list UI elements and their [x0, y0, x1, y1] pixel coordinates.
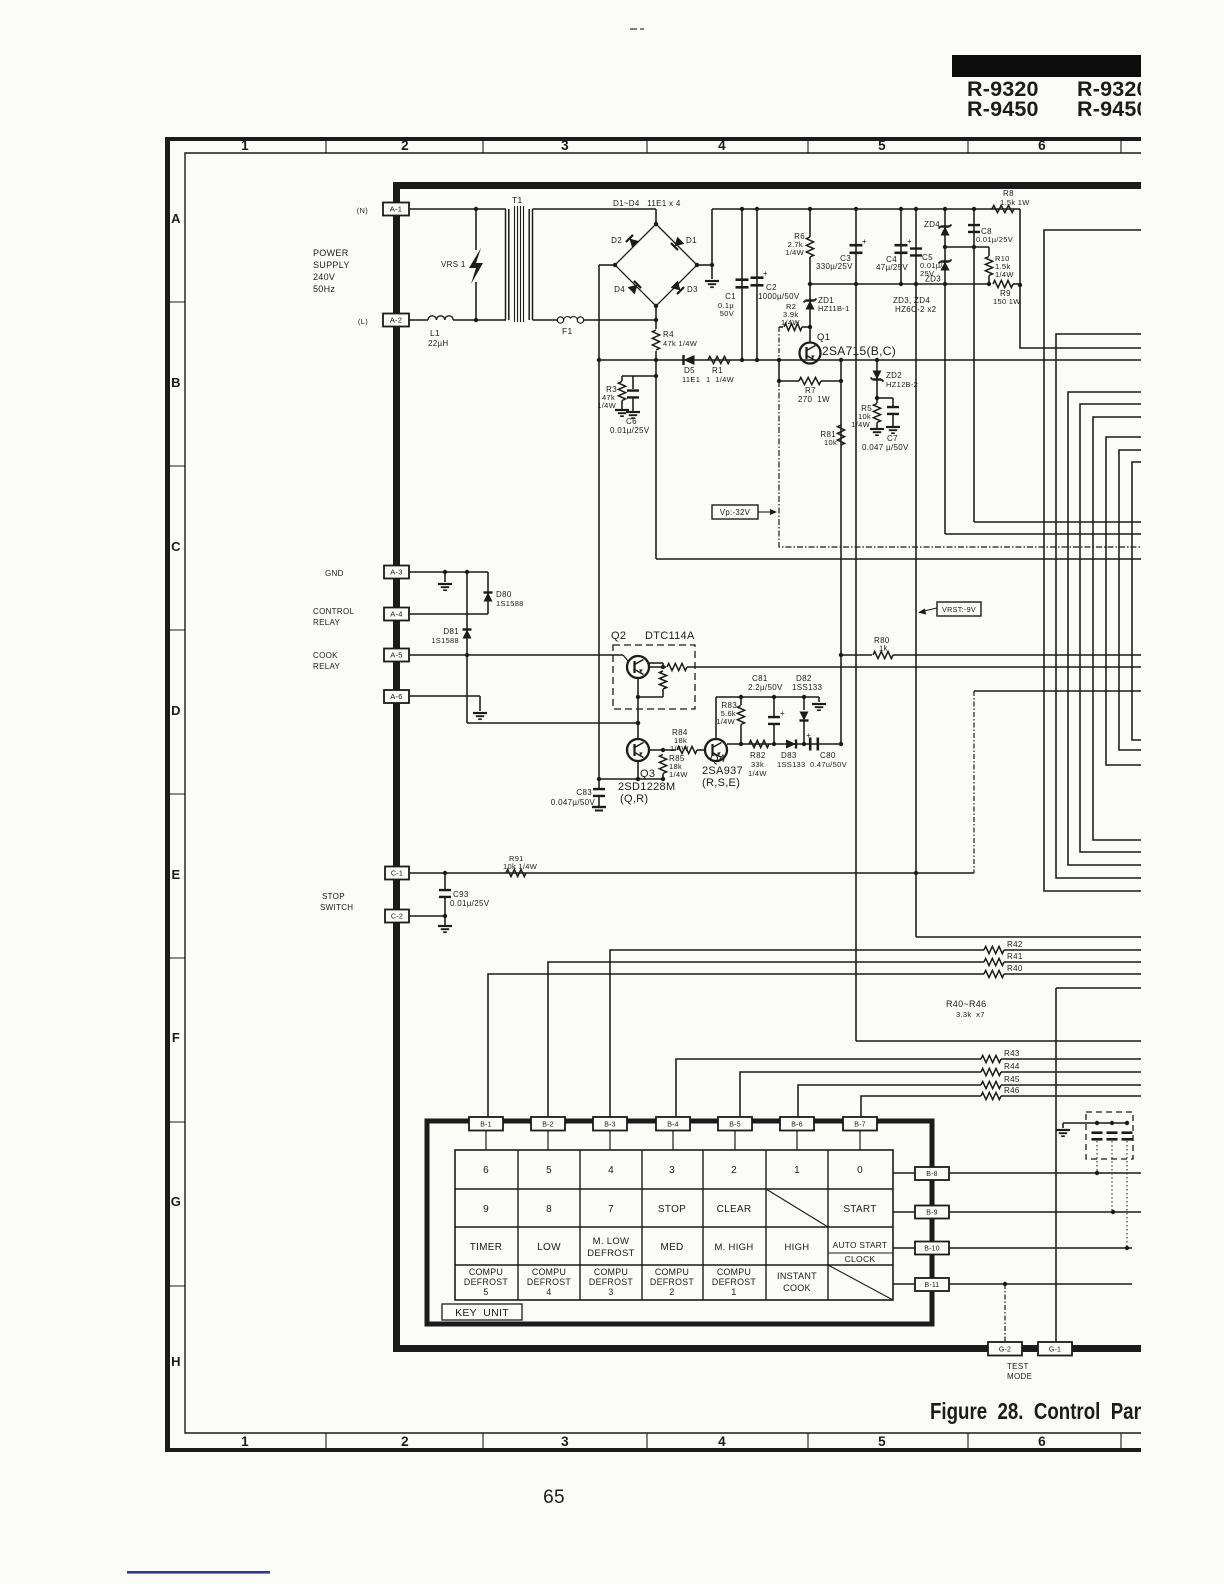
- connector B-1: [469, 1117, 503, 1131]
- digital transistor Q2 dashed box: [613, 645, 695, 709]
- node A-1/VRS1: [474, 207, 478, 211]
- wire A-6 stub: [409, 695, 480, 697]
- schematic border thick outline: [393, 182, 1141, 1352]
- resistor Q2 internal pulldown: [659, 671, 666, 689]
- svg-text:R-9450: R-9450: [967, 97, 1039, 121]
- svg-text:B-1: B-1: [480, 1121, 492, 1128]
- wire A-3: [409, 571, 488, 573]
- svg-text:B-2: B-2: [542, 1121, 554, 1128]
- wire Vp net dash-dot: [778, 327, 780, 360]
- ground R5: [870, 428, 884, 430]
- connector B-8 wire: [893, 1172, 915, 1174]
- wire C-2 line: [409, 915, 445, 917]
- capacitor C3: [854, 207, 858, 211]
- wire fuse to bridge: [584, 319, 656, 321]
- svg-text:50V: 50V: [720, 309, 734, 318]
- capacitor C4: [899, 207, 903, 211]
- node R3 branch: [654, 374, 658, 378]
- svg-text:4: 4: [718, 1434, 726, 1449]
- connector A-6: [384, 690, 409, 703]
- wire R7 left: [778, 360, 780, 381]
- svg-text:B-4: B-4: [667, 1121, 679, 1128]
- connector B-10 wire: [893, 1247, 915, 1249]
- svg-text:TIMER: TIMER: [470, 1242, 503, 1253]
- page frame inner border: [185, 153, 1150, 1433]
- zener ZD2: [876, 360, 878, 398]
- ground C93: [438, 925, 452, 927]
- connector B-8: [915, 1167, 949, 1180]
- svg-text:D1~D4 11E1 x 4: D1~D4 11E1 x 4: [613, 199, 681, 208]
- bridge node right: [695, 263, 699, 267]
- connector B-9 wire: [893, 1211, 915, 1213]
- svg-text:STOP: STOP: [322, 892, 345, 901]
- connector B-5: [718, 1117, 752, 1131]
- svg-text:3.3k x7: 3.3k x7: [956, 1010, 985, 1019]
- diode D81: [466, 572, 468, 723]
- frame column ticks top: [325, 137, 327, 153]
- node R2 drop: [777, 358, 781, 362]
- svg-text:Q1: Q1: [817, 332, 830, 343]
- svg-text:D: D: [171, 703, 181, 718]
- svg-text:B-9: B-9: [926, 1210, 938, 1217]
- node R4 main line: [654, 358, 658, 362]
- svg-text:10k: 10k: [824, 438, 837, 447]
- svg-text:R46: R46: [1004, 1086, 1020, 1095]
- svg-text:1000µ/50V: 1000µ/50V: [758, 292, 800, 301]
- wire R4 down: [655, 360, 657, 559]
- svg-text:M. LOW: M. LOW: [593, 1236, 630, 1247]
- capacitor C93: [444, 873, 446, 889]
- svg-text:R43: R43: [1004, 1049, 1020, 1058]
- diode D3: [671, 281, 684, 294]
- connector G-1: [1038, 1342, 1072, 1356]
- wire bridge bottom to R4: [655, 306, 657, 320]
- svg-text:1/4W: 1/4W: [995, 270, 1014, 279]
- svg-text:ZD3: ZD3: [925, 275, 941, 284]
- node R8/R9: [1018, 283, 1022, 287]
- svg-text:R40: R40: [1007, 964, 1023, 973]
- voltage label VRST -9V box: [937, 602, 981, 616]
- zener ZD4: [943, 207, 947, 211]
- zener ZD1: [809, 284, 811, 343]
- svg-text:COOK: COOK: [313, 651, 338, 660]
- connector C-2: [385, 910, 409, 923]
- svg-text:CLEAR: CLEAR: [717, 1204, 752, 1215]
- diode D83: [786, 740, 796, 749]
- wire L1 to transformer: [453, 319, 506, 321]
- wire key line B-2 / R41: [548, 962, 984, 1118]
- svg-text:AUTO START: AUTO START: [833, 1240, 888, 1250]
- svg-text:270 1W: 270 1W: [798, 395, 830, 404]
- wire transformer to fuse: [533, 319, 558, 321]
- diode D5: [684, 355, 695, 365]
- connector A-1: [383, 203, 409, 216]
- svg-text:1S1588: 1S1588: [431, 636, 459, 645]
- svg-text:R82: R82: [750, 751, 766, 760]
- node bridge bottom/F1: [654, 318, 658, 322]
- svg-text:C-1: C-1: [391, 869, 403, 878]
- svg-text:(R,S,E): (R,S,E): [702, 777, 740, 789]
- svg-text:(L): (L): [358, 317, 368, 326]
- wire main -32V line: [599, 359, 1141, 361]
- svg-text:2SA937: 2SA937: [702, 765, 743, 777]
- svg-text:ZD4: ZD4: [924, 220, 940, 229]
- wire key line B-4 / R43: [676, 1059, 981, 1118]
- transistor Q3: [627, 739, 649, 761]
- svg-text:SUPPLY: SUPPLY: [313, 260, 350, 270]
- svg-text:STOP: STOP: [658, 1204, 686, 1215]
- resistor R7: [779, 380, 799, 382]
- wire key line B-5 / R44: [740, 1072, 981, 1118]
- wire Q3 base-R84: [649, 749, 676, 751]
- svg-text:HZ6C-2 x2: HZ6C-2 x2: [895, 305, 937, 314]
- varistor VRS1: [469, 248, 483, 284]
- svg-text:VRS 1: VRS 1: [441, 260, 466, 269]
- node C93/C-2: [443, 914, 447, 918]
- node VRS1 bottom: [474, 318, 478, 322]
- wire bridge left to negative rail: [599, 264, 615, 266]
- svg-text:2SA715(B,C): 2SA715(B,C): [822, 344, 896, 358]
- connector B-11 wire: [893, 1283, 915, 1285]
- svg-text:D5: D5: [684, 366, 695, 375]
- svg-text:1: 1: [731, 1287, 736, 1297]
- ground capacitor block: [1062, 1123, 1064, 1128]
- ground bridge right: [705, 280, 719, 282]
- svg-text:B-3: B-3: [604, 1121, 616, 1128]
- svg-text:1: 1: [794, 1165, 800, 1176]
- nested bus loop 6: [1106, 437, 1141, 765]
- svg-text:INSTANT: INSTANT: [777, 1271, 817, 1281]
- svg-text:5: 5: [878, 138, 886, 153]
- svg-text:1 1/4W: 1 1/4W: [706, 375, 735, 384]
- svg-text:B-11: B-11: [924, 1282, 939, 1289]
- ground A-6: [473, 712, 487, 714]
- connector B-4: [656, 1117, 690, 1131]
- svg-text:C: C: [171, 539, 181, 554]
- capacitor C7: [877, 397, 893, 399]
- resistor R8: [992, 205, 1014, 212]
- svg-text:+: +: [763, 269, 768, 278]
- svg-text:1SS133: 1SS133: [792, 683, 823, 692]
- svg-text:CONTROL: CONTROL: [313, 607, 354, 616]
- key cell divider auto start/clock: [828, 1252, 893, 1254]
- svg-text:2: 2: [731, 1165, 737, 1176]
- wire A-2 segment: [409, 319, 428, 321]
- svg-text:G-1: G-1: [1049, 1346, 1061, 1353]
- svg-text:COMPU: COMPU: [655, 1267, 689, 1277]
- resistor R1: [708, 356, 730, 363]
- wire R8 corner: [1020, 209, 1141, 348]
- svg-text:DEFROST: DEFROST: [527, 1277, 571, 1287]
- page frame outer border: [165, 137, 1141, 1452]
- svg-text:1/4W: 1/4W: [785, 248, 804, 257]
- svg-text:1.5k 1W: 1.5k 1W: [1000, 198, 1030, 207]
- key unit thick border: [427, 1121, 932, 1324]
- svg-text:COMPU: COMPU: [717, 1267, 751, 1277]
- svg-text:A-2: A-2: [390, 316, 402, 325]
- wire key line B-7 / R46: [861, 1096, 981, 1118]
- wire G-1 net corner: [1056, 987, 1141, 989]
- wire bus vertical from C5 corner: [916, 936, 1141, 938]
- svg-text:F1: F1: [562, 326, 573, 336]
- resistor R84: [677, 746, 697, 753]
- svg-text:POWER: POWER: [313, 248, 349, 258]
- svg-text:D4: D4: [614, 285, 625, 294]
- wire net from R4 corner: [656, 558, 1141, 560]
- svg-text:A-6: A-6: [390, 692, 402, 701]
- wire key line B-3 / R42: [610, 950, 984, 1118]
- svg-text:C93: C93: [453, 890, 469, 899]
- svg-text:HZ12B-2: HZ12B-2: [886, 380, 918, 389]
- zener ZD3: [941, 262, 950, 271]
- svg-text:4: 4: [608, 1165, 614, 1176]
- svg-text:B: B: [171, 375, 181, 390]
- svg-text:6: 6: [1038, 138, 1046, 153]
- node main line left: [597, 358, 601, 362]
- wire Q3 emitter rail: [637, 761, 639, 779]
- svg-text:RELAY: RELAY: [313, 618, 341, 627]
- svg-text:3: 3: [561, 1434, 569, 1449]
- bridge node top: [654, 222, 658, 226]
- svg-text:A: A: [171, 211, 181, 226]
- resistor R4: [655, 320, 657, 329]
- capacitor block cap 3: [1122, 1131, 1133, 1134]
- ground C6: [626, 411, 640, 413]
- svg-text:5: 5: [878, 1434, 886, 1449]
- svg-text:COMPU: COMPU: [594, 1267, 628, 1277]
- transistor Q1: [800, 343, 821, 364]
- svg-text:2: 2: [401, 1434, 409, 1449]
- wire R84 to Q4: [697, 749, 705, 751]
- resistor R91: [506, 869, 526, 876]
- capacitor C81: [773, 697, 775, 716]
- svg-text:Q2: Q2: [611, 630, 626, 642]
- svg-text:+: +: [907, 237, 912, 246]
- wire bus vertical from C3: [856, 1040, 1141, 1042]
- svg-text:T1: T1: [512, 195, 523, 205]
- svg-text:MODE: MODE: [1007, 1372, 1032, 1381]
- svg-text:150 1W: 150 1W: [993, 297, 1021, 306]
- blue pen underline: [127, 1571, 270, 1574]
- svg-text:D80: D80: [496, 590, 512, 599]
- nested bus loop 5: [1093, 417, 1141, 840]
- svg-text:B-10: B-10: [924, 1246, 940, 1253]
- transistor Q4: [705, 739, 727, 761]
- svg-text:1/4W: 1/4W: [748, 769, 767, 778]
- voltage label Vp -32V box: [712, 505, 758, 519]
- svg-text:SWITCH: SWITCH: [320, 903, 353, 912]
- resistor Q2 internal output: [661, 665, 665, 669]
- svg-text:R4: R4: [663, 330, 674, 339]
- svg-text:7: 7: [608, 1204, 614, 1215]
- svg-text:D81: D81: [443, 627, 459, 636]
- svg-text:1S1588: 1S1588: [496, 599, 524, 608]
- svg-text:2.2µ/50V: 2.2µ/50V: [748, 683, 783, 692]
- ground A-3 stub: [444, 572, 446, 582]
- svg-text:(N): (N): [357, 206, 369, 215]
- svg-text:DEFROST: DEFROST: [650, 1277, 694, 1287]
- svg-text:5: 5: [483, 1287, 488, 1297]
- arrow VRST to net: [924, 608, 937, 611]
- svg-text:0.01µ/25V: 0.01µ/25V: [976, 235, 1013, 244]
- wire Vp net corner: [779, 381, 1141, 547]
- svg-text:HIGH: HIGH: [785, 1242, 810, 1253]
- nested bus loop 7: [1119, 450, 1141, 750]
- negative rail vertical: [598, 265, 600, 779]
- svg-text:D2: D2: [611, 236, 622, 245]
- wire C-1 line: [409, 872, 974, 874]
- node C2 bottom: [755, 358, 759, 362]
- nested bus loop 8: [1132, 462, 1141, 740]
- svg-text:Vp:-32V: Vp:-32V: [720, 508, 751, 517]
- connector A-5: [384, 649, 409, 662]
- svg-text:A-4: A-4: [390, 610, 402, 619]
- svg-text:R8: R8: [1003, 189, 1014, 198]
- wire bridge right to ground node: [697, 264, 712, 266]
- ground D82 rail: [818, 697, 820, 702]
- svg-text:A-5: A-5: [390, 651, 402, 660]
- svg-text:0.01µ/25V: 0.01µ/25V: [450, 899, 490, 908]
- capacitor block wire: [1063, 1122, 1129, 1124]
- node ZD2 top: [875, 358, 879, 362]
- svg-text:33k: 33k: [751, 760, 764, 769]
- svg-text:50Hz: 50Hz: [313, 284, 335, 294]
- connector B-2: [531, 1117, 565, 1131]
- connector A-2: [383, 314, 409, 327]
- key matrix table grid: [455, 1150, 893, 1300]
- diode D4: [628, 281, 641, 294]
- svg-text:KEY UNIT: KEY UNIT: [455, 1307, 509, 1319]
- svg-text:1/4W: 1/4W: [716, 717, 735, 726]
- svg-text:ZD3, ZD4: ZD3, ZD4: [893, 296, 930, 305]
- svg-text:TEST: TEST: [1007, 1362, 1029, 1371]
- svg-text:LOW: LOW: [537, 1242, 561, 1253]
- fuse F1: [557, 317, 563, 323]
- capacitor C6: [632, 376, 634, 389]
- svg-text:C80: C80: [820, 751, 836, 760]
- svg-text:Figure 28. Control Pan: Figure 28. Control Pan: [930, 1398, 1145, 1424]
- svg-text:0.01µ/25V: 0.01µ/25V: [610, 426, 650, 435]
- connector B-11: [915, 1278, 949, 1291]
- node C1 bottom: [740, 358, 744, 362]
- svg-text:3: 3: [561, 138, 569, 153]
- svg-text:C1: C1: [725, 292, 736, 301]
- capacitor block cap 1: [1092, 1131, 1103, 1134]
- svg-text:COOK: COOK: [783, 1283, 811, 1293]
- inductor L1: [428, 316, 453, 320]
- capacitor block dashed box: [1086, 1112, 1133, 1159]
- resistor R2: [779, 326, 783, 328]
- svg-text:1/4W: 1/4W: [670, 744, 689, 753]
- svg-text:M. HIGH: M. HIGH: [714, 1242, 753, 1253]
- svg-text:3: 3: [608, 1287, 613, 1297]
- svg-text:1/4W: 1/4W: [669, 770, 688, 779]
- svg-text:C7: C7: [887, 434, 898, 443]
- wire key line B-6 / R45: [798, 1085, 981, 1118]
- bridge node bottom: [654, 304, 658, 308]
- svg-text:A-3: A-3: [390, 568, 402, 577]
- svg-text:HZ11B-1: HZ11B-1: [818, 304, 850, 313]
- svg-text:1/4W: 1/4W: [781, 318, 800, 327]
- svg-text:D3: D3: [687, 285, 698, 294]
- svg-text:DEFROST: DEFROST: [589, 1277, 633, 1287]
- wire net from C8 corner: [974, 521, 1141, 523]
- connector B-3: [593, 1117, 627, 1131]
- svg-text:CLOCK: CLOCK: [845, 1254, 876, 1264]
- svg-text:START: START: [843, 1204, 876, 1215]
- wire A-4: [409, 613, 488, 615]
- nested bus loop 2: [1056, 334, 1141, 878]
- resistor R10: [988, 247, 990, 256]
- svg-text:L1: L1: [430, 328, 440, 338]
- svg-text:0.47u/50V: 0.47u/50V: [810, 760, 847, 769]
- wire Q4 bias rail: [716, 696, 819, 698]
- node bridge right: [710, 263, 714, 267]
- resistor R82: [749, 740, 769, 747]
- key matrix column stubs: [485, 1131, 487, 1150]
- svg-text:+: +: [780, 709, 785, 718]
- svg-text:R44: R44: [1004, 1062, 1020, 1071]
- connector A-4: [384, 608, 409, 621]
- ground C7: [886, 426, 900, 428]
- connector C-1: [385, 867, 409, 880]
- connector B-10: [915, 1242, 949, 1255]
- svg-text:4: 4: [718, 138, 726, 153]
- svg-text:11E1: 11E1: [682, 375, 700, 384]
- svg-text:1/4W: 1/4W: [597, 401, 616, 410]
- svg-text:A-1: A-1: [390, 205, 402, 214]
- capacitor C1: [740, 207, 744, 211]
- svg-text:6: 6: [1038, 1434, 1046, 1449]
- svg-text:1: 1: [241, 138, 249, 153]
- wire ZD4-C8 junction rail: [945, 246, 989, 248]
- capacitor C80: [809, 738, 812, 751]
- svg-text:C81: C81: [752, 674, 768, 683]
- svg-text:330µ/25V: 330µ/25V: [816, 262, 853, 271]
- nested bus loop 4: [1080, 404, 1141, 852]
- svg-text:DEFROST: DEFROST: [712, 1277, 756, 1287]
- svg-text:B-5: B-5: [729, 1121, 741, 1128]
- svg-text:DEFROST: DEFROST: [587, 1248, 635, 1259]
- svg-text:GND: GND: [325, 569, 344, 578]
- connector B-9: [915, 1206, 949, 1219]
- svg-text:2: 2: [669, 1287, 674, 1297]
- diode D80: [487, 572, 489, 614]
- svg-text:1SS133: 1SS133: [777, 760, 806, 769]
- wire C-1 net corner up: [973, 691, 975, 873]
- stray scan mark: [630, 28, 637, 30]
- resistor R83: [740, 697, 742, 705]
- bridge node left: [613, 263, 617, 267]
- svg-text:1/4W: 1/4W: [851, 420, 870, 429]
- svg-text:DEFROST: DEFROST: [464, 1277, 508, 1287]
- svg-text:9: 9: [483, 1204, 489, 1215]
- key unit label box: [442, 1304, 522, 1320]
- resistor R6: [808, 207, 812, 211]
- svg-text:Q4: Q4: [710, 753, 725, 765]
- capacitor C8: [972, 207, 976, 211]
- svg-text:R40~R46: R40~R46: [946, 999, 986, 1009]
- resistor R81: [837, 425, 844, 445]
- wire G-2 drop dash-dot: [1004, 1284, 1006, 1343]
- wire top rail: [712, 208, 1020, 210]
- svg-text:ZD2: ZD2: [886, 371, 902, 380]
- svg-text:0.047 µ/50V: 0.047 µ/50V: [862, 443, 909, 452]
- key matrix diagonal row2: [766, 1189, 828, 1227]
- svg-text:G-2: G-2: [999, 1346, 1011, 1353]
- svg-text:3: 3: [669, 1165, 675, 1176]
- svg-text:2: 2: [401, 138, 409, 153]
